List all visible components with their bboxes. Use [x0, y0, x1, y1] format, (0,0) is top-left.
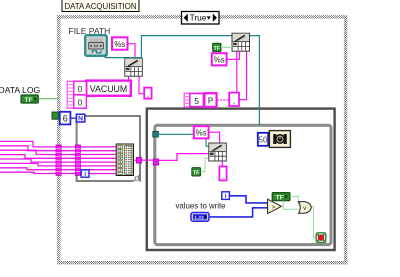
- wait until next ms multiple metronome: [269, 131, 290, 148]
- wire greater to or node: [283, 206, 298, 209]
- wire %s3 to node3: [209, 132, 220, 143]
- wire TF indicator to or node: [290, 196, 299, 205]
- array constant 5: [184, 93, 203, 107]
- wire TF2 to node3: [201, 158, 209, 171]
- svg-text:,: ,: [233, 96, 235, 105]
- string constant comma 1: [144, 88, 151, 100]
- wire 6 to N: [71, 117, 77, 119]
- format into string node 2: [232, 33, 250, 51]
- svg-text:N: N: [78, 116, 83, 123]
- iteration terminal i of for loop: [81, 170, 89, 178]
- boolean constant TF 1: [213, 43, 221, 52]
- wire %s1 to format node 1: [128, 44, 135, 59]
- svg-text:.: .: [222, 172, 224, 181]
- svg-text:50: 50: [258, 136, 268, 145]
- svg-text:%s: %s: [214, 56, 225, 65]
- wire node2 down to comma2: [236, 51, 238, 92]
- wire file path teal: [105, 36, 259, 126]
- string constant dot tall: [219, 166, 226, 180]
- string constant VACUUM: [86, 81, 131, 96]
- svg-text:TF: TF: [193, 170, 200, 176]
- svg-text:0: 0: [78, 98, 83, 107]
- svg-text:values to write: values to write: [176, 201, 226, 211]
- tunnel column on for loop border: [75, 145, 80, 176]
- boolean control DATA LOG TF terminal: [21, 95, 38, 104]
- label DATA ACQUISITION: [62, 0, 139, 12]
- svg-text:,: ,: [147, 90, 149, 99]
- wire node2 down right of comma2: [239, 51, 246, 99]
- svg-text:5: 5: [194, 96, 199, 106]
- svg-text:1.23: 1.23: [194, 215, 204, 221]
- inner case structure border: [155, 125, 331, 244]
- format into string node 3: [209, 143, 227, 161]
- wire node1 to comma constant: [139, 76, 144, 94]
- wire bundle 8 magenta input wires: [0, 141, 116, 173]
- wire build array output: [134, 159, 155, 161]
- numeric constant 6: [60, 112, 71, 125]
- svg-text:>: >: [272, 205, 276, 211]
- tunnel for loop output: [136, 157, 141, 163]
- wire array to greater node: [209, 208, 268, 217]
- wire magenta tunnel to node3: [159, 154, 209, 161]
- svg-text:TF: TF: [24, 97, 32, 104]
- for loop count terminal N: [76, 114, 84, 122]
- numeric constant 50: [258, 133, 268, 146]
- array constant 0 0: [67, 81, 86, 108]
- string constant %s 2: [212, 53, 227, 65]
- for loop border: [77, 116, 140, 182]
- wire 50 to metronome: [268, 138, 269, 140]
- svg-text:TF: TF: [214, 46, 221, 52]
- string constant comma 2: [229, 93, 239, 106]
- tunnel column on case border: [56, 145, 61, 176]
- iteration terminal i inner: [222, 192, 230, 200]
- string constant P: [204, 93, 216, 107]
- build array node: [116, 144, 133, 176]
- wire TF1 to node2: [221, 46, 232, 48]
- while loop border: [147, 109, 335, 250]
- svg-text:VACUUM: VACUUM: [90, 84, 127, 94]
- stop button terminal: [316, 233, 326, 243]
- svg-text:i: i: [84, 171, 86, 178]
- wire or to stop terminal: [311, 206, 316, 237]
- svg-text:DATA ACQUISITION: DATA ACQUISITION: [65, 1, 137, 11]
- case selector True: [182, 12, 220, 25]
- greater than node: [268, 199, 282, 213]
- svg-text:TF: TF: [276, 194, 284, 201]
- tunnel case input magenta: [153, 159, 158, 165]
- string constant %s 1: [112, 37, 128, 49]
- wire i to greater node: [229, 196, 267, 203]
- boolean constant TF 2: [192, 168, 201, 177]
- wire DATA LOG green: [38, 98, 57, 100]
- wire greater to TF indicator: [281, 201, 283, 207]
- svg-text:%s: %s: [196, 129, 207, 138]
- svg-text:0: 0: [78, 85, 83, 94]
- string constant %s 3: [194, 126, 209, 138]
- file path control: [85, 35, 107, 56]
- wire P to comma2: [217, 99, 229, 101]
- svg-text:True: True: [190, 13, 207, 23]
- format into string node 1: [125, 58, 143, 76]
- svg-text:i: i: [225, 193, 227, 200]
- array control values to write terminal: [191, 213, 209, 222]
- tunnel teal on inner case border: [153, 131, 159, 137]
- outer case structure border (DATA ACQUISITION case): [57, 15, 347, 264]
- svg-text:P: P: [208, 97, 213, 106]
- svg-text:6: 6: [63, 114, 68, 124]
- svg-text:%s: %s: [114, 40, 125, 49]
- wire teal inside case to node3: [158, 134, 208, 146]
- svg-text:DATA LOG: DATA LOG: [0, 85, 41, 95]
- wire node3 output down: [221, 161, 223, 166]
- boolean indicator TF: [272, 193, 290, 202]
- tunnel boolean on case border: [52, 112, 59, 119]
- wire node1 to VACUUM: [128, 76, 130, 80]
- or node: [299, 202, 312, 214]
- wire %s2 to node2: [227, 51, 240, 59]
